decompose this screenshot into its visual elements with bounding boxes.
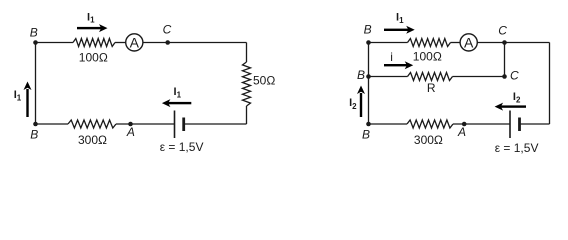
svg-text:R: R xyxy=(427,81,436,95)
svg-text:I1: I1 xyxy=(396,12,404,25)
wire right circuit top: B to resistor xyxy=(369,42,408,44)
resistor 300ohm left circuit xyxy=(68,120,116,128)
node A right circuit xyxy=(462,122,467,127)
resistor R xyxy=(408,73,453,81)
svg-text:100Ω: 100Ω xyxy=(79,51,108,65)
svg-text:A: A xyxy=(130,34,140,50)
wire resistor R to node C middle xyxy=(453,76,505,78)
wire bottom right circuit: corner to battery xyxy=(520,123,550,125)
arrow i middle right circuit xyxy=(384,61,413,69)
node A left circuit xyxy=(128,122,133,127)
wire left circuit right edge top part xyxy=(246,43,248,63)
node B bottom right circuit xyxy=(366,122,371,127)
node B top left circuit xyxy=(33,40,38,45)
wire resistor to ammeter right circuit xyxy=(451,42,461,44)
wire C vertical connector xyxy=(504,43,506,77)
wire left circuit left edge xyxy=(35,43,37,125)
svg-text:B: B xyxy=(364,22,372,36)
resistor 100ohm right circuit xyxy=(408,39,451,47)
node B top right circuit xyxy=(366,40,371,45)
svg-text:I1: I1 xyxy=(174,86,182,99)
wire right circuit right edge xyxy=(549,43,551,125)
ammeter U1 left circuit xyxy=(126,34,143,51)
node B bottom left circuit xyxy=(33,122,38,127)
svg-text:B: B xyxy=(30,128,38,142)
svg-text:50Ω: 50Ω xyxy=(253,74,275,88)
battery right circuit: short plate xyxy=(518,118,521,132)
svg-text:I1: I1 xyxy=(14,89,22,102)
svg-text:B: B xyxy=(30,26,38,40)
wire middle branch B to resistor R xyxy=(369,76,408,78)
svg-text:300Ω: 300Ω xyxy=(78,133,107,147)
arrow I1 top left circuit xyxy=(77,24,108,32)
svg-text:A: A xyxy=(126,125,135,139)
svg-text:ε = 1,5V: ε = 1,5V xyxy=(495,141,539,155)
wire resistor to bottom left corner right circuit xyxy=(369,123,408,125)
wire right edge bottom part xyxy=(246,106,248,124)
svg-text:ε = 1,5V: ε = 1,5V xyxy=(160,140,204,154)
wire ammeter to C and corner xyxy=(477,42,549,44)
wire resistor to ammeter xyxy=(115,42,126,44)
svg-text:I1: I1 xyxy=(87,11,95,24)
svg-text:C: C xyxy=(163,23,172,37)
battery right circuit: long plate xyxy=(509,111,511,139)
wire right circuit left edge xyxy=(368,43,370,125)
arrow I2 above battery right circuit (points left) xyxy=(495,103,526,111)
wire battery to node A and resistor xyxy=(116,123,175,125)
battery left circuit: long plate xyxy=(174,111,176,139)
wire bottom: corner to battery xyxy=(184,123,247,125)
arrow I2 left side up right circuit xyxy=(357,86,365,118)
svg-text:C: C xyxy=(510,69,519,83)
resistor 100ohm left circuit xyxy=(73,39,115,47)
arrow I1 top right circuit xyxy=(384,26,415,34)
node C top right circuit xyxy=(502,40,507,45)
resistor 50ohm vertical xyxy=(243,62,251,106)
resistor 300ohm right circuit xyxy=(407,120,453,128)
svg-text:I2: I2 xyxy=(349,97,357,111)
svg-text:A: A xyxy=(464,34,474,50)
ammeter U2 right circuit xyxy=(460,34,477,51)
svg-text:B: B xyxy=(357,68,365,82)
node B middle right circuit xyxy=(366,74,371,79)
svg-text:I2: I2 xyxy=(513,91,521,105)
svg-text:100Ω: 100Ω xyxy=(413,49,442,63)
svg-text:B: B xyxy=(362,128,370,142)
battery left circuit: short plate xyxy=(182,118,185,132)
node C middle right circuit xyxy=(502,74,507,79)
arrow I1 above battery (points left) xyxy=(162,99,191,107)
svg-text:C: C xyxy=(498,23,507,37)
svg-text:A: A xyxy=(457,125,466,139)
wire ammeter to right corner xyxy=(143,42,247,44)
node C left circuit xyxy=(165,40,170,45)
wire resistor to bottom left corner xyxy=(36,123,69,125)
arrow I1 left side up xyxy=(24,82,32,118)
svg-text:i: i xyxy=(390,50,393,64)
wire battery to node A and resistor xyxy=(453,123,510,125)
wire left circuit top: B to resistor xyxy=(36,42,74,44)
svg-text:300Ω: 300Ω xyxy=(414,133,443,147)
